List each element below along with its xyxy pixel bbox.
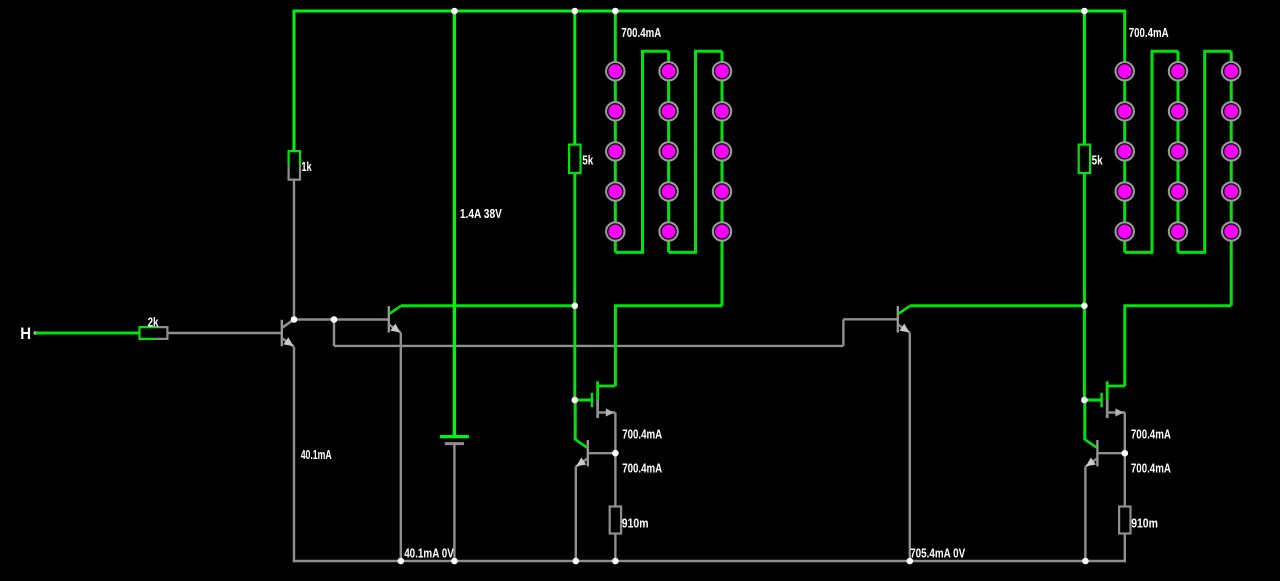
svg-text:700.4mA: 700.4mA: [622, 462, 662, 476]
wire Q1 collector to R2: [293, 180, 295, 320]
LED D18: [1116, 142, 1134, 160]
transistor Q2: [389, 306, 401, 333]
voltage source V1 negative plate: [445, 442, 464, 445]
wire LED string return to MOSFET drain left: [615, 306, 722, 386]
node base branch: [331, 316, 338, 323]
svg-text:1.4A 38V: 1.4A 38V: [460, 207, 503, 221]
LED D12: [713, 102, 731, 120]
wire LED link col1-col2 right: [1125, 51, 1178, 252]
wire Q1 emitter to ground bus: [293, 347, 295, 563]
wire R1 to Q1 base: [167, 332, 281, 334]
LED D22: [1169, 102, 1187, 120]
LED D29: [1222, 182, 1240, 200]
LED D17: [1116, 102, 1134, 120]
svg-text:700.4mA: 700.4mA: [622, 428, 662, 442]
svg-text:700.4mA: 700.4mA: [1131, 428, 1171, 442]
node A left: [572, 303, 579, 310]
wire LED link col1-col2 left: [615, 51, 668, 252]
svg-text:5k: 5k: [1092, 153, 1103, 167]
wire Q2 collector to node A: [401, 304, 575, 307]
transistor Q4: [1085, 440, 1097, 467]
wire bus to Q5 base: [843, 318, 897, 320]
svg-text:910m: 910m: [622, 516, 649, 530]
LED D27: [1222, 102, 1240, 120]
wire LED column 2 left: [667, 51, 670, 252]
wire H to R1: [35, 332, 139, 335]
LED D14: [713, 182, 731, 200]
wire gate node to NPN collector right: [1083, 400, 1086, 440]
svg-text:1k: 1k: [301, 160, 311, 174]
wire top rail to 5k left: [573, 11, 576, 145]
node ground Q3 emitter: [573, 558, 580, 565]
wire MOSFET source to node B right: [1124, 413, 1126, 454]
wire node B to 910m resistor left: [614, 453, 616, 506]
LED D21: [1169, 62, 1187, 80]
node B left: [612, 450, 619, 457]
LED D5: [606, 222, 624, 240]
node ground 910m left: [612, 558, 619, 565]
transistor Q3: [576, 440, 588, 467]
wire battery negative lead: [453, 444, 455, 561]
wire LED string return to MOSFET drain right: [1125, 306, 1231, 386]
wire gate node to NPN collector left: [574, 400, 577, 440]
resistor R2 1k body: [289, 151, 300, 165]
LED D28: [1222, 142, 1240, 160]
wire branch down from base bus: [333, 320, 335, 346]
svg-text:700.4mA: 700.4mA: [621, 26, 661, 40]
LED D3: [606, 142, 624, 160]
wire Q5 collector to node A2: [910, 304, 1085, 307]
LED D19: [1116, 182, 1134, 200]
LED D1: [606, 62, 624, 80]
svg-text:40.1mA 0V: 40.1mA 0V: [404, 546, 454, 560]
wire ground bus: [293, 560, 1126, 562]
LED D6: [659, 62, 677, 80]
wire R2 to top rail: [293, 10, 296, 152]
LED D16: [1116, 62, 1134, 80]
svg-text:700.4mA: 700.4mA: [1129, 26, 1169, 40]
node ground Q5 emitter: [907, 558, 914, 565]
node top rail battery: [451, 8, 458, 15]
wire node B to 910m resistor right: [1124, 453, 1126, 506]
transistor Q5: [898, 306, 910, 333]
node B right: [1122, 450, 1129, 457]
LED D8: [659, 142, 677, 160]
wire Q2 emitter to ground bus: [400, 333, 402, 561]
LED D4: [606, 182, 624, 200]
resistor 5k left body: [569, 145, 580, 173]
wire LED column 3 right: [1230, 51, 1233, 305]
svg-text:910m: 910m: [1131, 516, 1158, 530]
LED D2: [606, 102, 624, 120]
LED D15: [713, 222, 731, 240]
wire Q5 emitter to ground bus: [909, 333, 911, 561]
LED D13: [713, 142, 731, 160]
wire node A to MOSFET gate left: [573, 306, 576, 400]
wire NPN emitter to ground bus right: [1084, 467, 1086, 561]
wire battery positive lead: [453, 11, 456, 436]
wire LED link col2-col3 left: [669, 51, 722, 252]
wire bus rise: [842, 319, 844, 346]
node top rail 5k left: [572, 8, 579, 15]
LED D7: [659, 102, 677, 120]
wire base bus Q1 collector to Q2 base: [294, 318, 388, 320]
wire MOSFET source to node B left: [614, 413, 616, 454]
svg-text:705.4mA 0V: 705.4mA 0V: [910, 546, 966, 560]
voltage source V1 positive plate: [440, 435, 469, 438]
MOSFET M1: [575, 381, 616, 418]
LED D25: [1169, 222, 1187, 240]
LED D9: [659, 182, 677, 200]
wire top rail: [293, 10, 1127, 13]
wire LED column 3 left: [721, 51, 724, 305]
transistor Q1: [282, 320, 294, 347]
wire NPN base lead right: [1098, 452, 1125, 454]
LED D26: [1222, 62, 1240, 80]
wire LED column 2 right: [1177, 51, 1180, 252]
LED D23: [1169, 142, 1187, 160]
node ground Q2 emitter: [398, 558, 405, 565]
node ground Q4 emitter: [1082, 558, 1089, 565]
resistor 910m right body: [1119, 507, 1130, 534]
svg-text:700.4mA: 700.4mA: [1131, 462, 1171, 476]
LED D20: [1116, 222, 1134, 240]
LED D11: [713, 62, 731, 80]
node Q1 collector junction: [291, 316, 298, 323]
wire top rail to 5k right: [1083, 11, 1086, 145]
wire 5k to node A left: [573, 173, 576, 306]
MOSFET M2: [1084, 381, 1125, 418]
svg-text:40.1mA: 40.1mA: [301, 448, 332, 462]
LED D30: [1222, 222, 1240, 240]
wire 910m to ground bus left: [614, 534, 616, 563]
wire long base bus to right stage: [334, 345, 843, 347]
wire 5k to node A right: [1083, 173, 1086, 306]
resistor 5k right body: [1079, 145, 1090, 173]
svg-text:2k: 2k: [148, 316, 159, 330]
wire node A to MOSFET gate right: [1083, 306, 1086, 400]
resistor R1 2k body: [140, 327, 156, 339]
node A right: [1081, 303, 1088, 310]
LED D10: [659, 222, 677, 240]
wire LED link col2-col3 right: [1178, 51, 1231, 252]
wire LED column 1 left: [614, 11, 617, 252]
node ground battery: [451, 558, 458, 565]
wire 910m to ground bus right: [1124, 534, 1126, 563]
node gate right: [1081, 397, 1088, 404]
wire NPN base lead left: [588, 452, 615, 454]
node top rail 5k right: [1081, 8, 1088, 15]
svg-text:H: H: [20, 324, 31, 343]
svg-text:5k: 5k: [582, 153, 593, 167]
node gate left: [572, 397, 579, 404]
wire LED column 1 right: [1123, 11, 1126, 252]
wire NPN emitter to ground bus left: [575, 467, 577, 561]
node top rail LED feed left: [612, 8, 619, 15]
LED D24: [1169, 182, 1187, 200]
terminal post H: [34, 331, 38, 335]
resistor 910m left body: [610, 507, 621, 534]
